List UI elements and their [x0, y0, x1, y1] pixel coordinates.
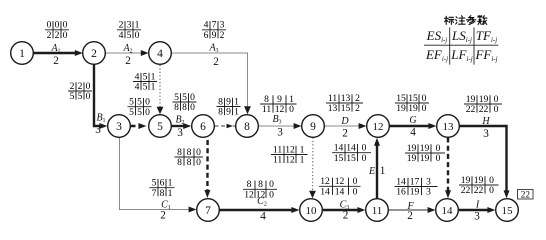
svg-text:0: 0 — [353, 186, 358, 197]
svg-text:0: 0 — [190, 102, 195, 113]
svg-text:5: 5 — [143, 82, 148, 93]
svg-text:22: 22 — [521, 191, 531, 201]
svg-text:E: E — [368, 166, 375, 177]
svg-text:5: 5 — [127, 30, 132, 41]
svg-text:15: 15 — [341, 103, 351, 114]
svg-text:4: 4 — [135, 82, 140, 93]
svg-text:2: 2 — [53, 55, 59, 67]
svg-text:15: 15 — [346, 153, 356, 164]
svg-text:2: 2 — [407, 210, 413, 222]
svg-text:19: 19 — [407, 153, 417, 164]
svg-text:10: 10 — [306, 205, 318, 217]
svg-text:0: 0 — [362, 153, 367, 164]
svg-text:1: 1 — [300, 155, 305, 166]
svg-text:6: 6 — [204, 30, 209, 41]
svg-text:22: 22 — [479, 104, 489, 115]
svg-text:8: 8 — [177, 157, 182, 168]
svg-text:0: 0 — [63, 30, 68, 41]
svg-text:8: 8 — [244, 121, 250, 133]
svg-text:1: 1 — [19, 48, 25, 60]
svg-text:4: 4 — [410, 127, 416, 139]
svg-text:3: 3 — [95, 124, 101, 136]
svg-text:15: 15 — [502, 205, 514, 217]
svg-text:D: D — [340, 116, 349, 127]
svg-text:2: 2 — [213, 56, 219, 68]
svg-text:8: 8 — [182, 102, 187, 113]
svg-text:5: 5 — [137, 107, 142, 118]
svg-text:2: 2 — [55, 30, 60, 41]
svg-text:15: 15 — [334, 153, 344, 164]
svg-text:9: 9 — [212, 30, 217, 41]
svg-text:8: 8 — [218, 107, 223, 118]
svg-text:0: 0 — [489, 185, 494, 196]
svg-text:3: 3 — [474, 211, 480, 223]
svg-text:19: 19 — [408, 103, 418, 114]
svg-text:4: 4 — [157, 48, 163, 60]
svg-text:3: 3 — [116, 121, 122, 133]
svg-text:14: 14 — [442, 205, 454, 217]
svg-text:3: 3 — [483, 128, 489, 140]
svg-text:2: 2 — [160, 210, 166, 222]
svg-text:1: 1 — [380, 165, 386, 177]
svg-text:7: 7 — [205, 205, 211, 217]
svg-text:7: 7 — [152, 188, 157, 199]
svg-text:4: 4 — [119, 30, 124, 41]
svg-text:13: 13 — [443, 121, 455, 133]
svg-text:H: H — [481, 116, 490, 127]
svg-text:22: 22 — [474, 185, 484, 196]
svg-text:14: 14 — [335, 186, 345, 197]
svg-text:0: 0 — [196, 157, 201, 168]
svg-text:2: 2 — [342, 128, 348, 140]
svg-text:19: 19 — [396, 103, 406, 114]
svg-text:2: 2 — [355, 103, 360, 114]
svg-text:I: I — [475, 200, 480, 211]
svg-text:2: 2 — [125, 55, 131, 67]
svg-text:6: 6 — [200, 121, 206, 133]
svg-text:0: 0 — [86, 91, 91, 102]
svg-text:5: 5 — [129, 107, 134, 118]
svg-text:12: 12 — [244, 189, 254, 200]
svg-text:3: 3 — [426, 187, 431, 198]
svg-text:19: 19 — [420, 153, 430, 164]
svg-text:12: 12 — [285, 155, 295, 166]
svg-text:1: 1 — [168, 188, 173, 199]
svg-text:11: 11 — [273, 155, 282, 166]
svg-text:5: 5 — [78, 91, 83, 102]
svg-text:0: 0 — [436, 153, 441, 164]
svg-text:22: 22 — [466, 104, 476, 115]
svg-text:11: 11 — [372, 205, 383, 217]
svg-text:8: 8 — [174, 102, 179, 113]
svg-text:2: 2 — [47, 30, 52, 41]
svg-text:14: 14 — [320, 186, 330, 197]
svg-text:4: 4 — [260, 211, 266, 223]
svg-text:0: 0 — [494, 104, 499, 115]
svg-text:16: 16 — [396, 187, 406, 198]
svg-text:9: 9 — [226, 107, 231, 118]
svg-text:1: 1 — [151, 82, 156, 93]
svg-text:0: 0 — [289, 104, 294, 115]
svg-text:2: 2 — [91, 48, 97, 60]
svg-text:5: 5 — [157, 121, 163, 133]
svg-text:3: 3 — [277, 127, 283, 139]
svg-text:12: 12 — [373, 121, 384, 133]
svg-text:9: 9 — [310, 121, 316, 133]
svg-text:2: 2 — [220, 30, 225, 41]
svg-text:8: 8 — [160, 188, 165, 199]
svg-text:3: 3 — [177, 127, 183, 139]
svg-text:0: 0 — [422, 103, 427, 114]
svg-text:22: 22 — [461, 185, 471, 196]
svg-text:0: 0 — [145, 107, 150, 118]
svg-text:1: 1 — [234, 107, 239, 118]
svg-text:13: 13 — [328, 103, 338, 114]
svg-text:19: 19 — [410, 187, 420, 198]
svg-text:8: 8 — [187, 157, 192, 168]
svg-text:0: 0 — [269, 189, 274, 200]
svg-text:11: 11 — [262, 104, 271, 115]
svg-text:G: G — [409, 115, 416, 126]
svg-text:0: 0 — [135, 30, 140, 41]
svg-text:5: 5 — [70, 91, 75, 102]
svg-text:2: 2 — [343, 209, 349, 221]
